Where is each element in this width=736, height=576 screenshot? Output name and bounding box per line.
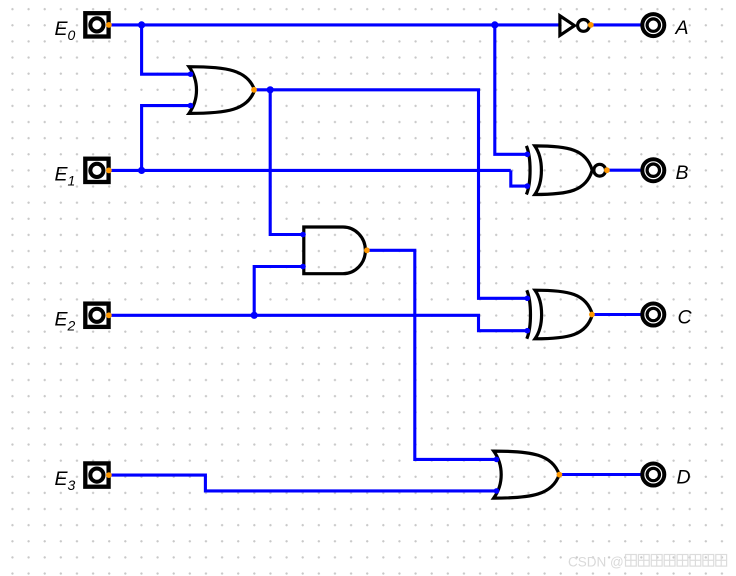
input pin E2 square: [85, 304, 108, 327]
output pin D inner ring: [647, 468, 659, 480]
wire E1 output horizontal: [109, 169, 511, 172]
wire from node E0-J1 down to OR gate U1 top input: [142, 25, 190, 74]
wire XNOR U4 output to output pin B: [607, 169, 641, 172]
xnor-gate U4 body: [535, 146, 592, 195]
wire from node OR-J4 down to AND U2 top input: [270, 90, 303, 235]
wire NOT U3 output to output pin A: [591, 23, 641, 26]
wire from node E1-J2 up to OR gate U1 bottom input: [142, 106, 190, 171]
output pin D outer ring: [642, 464, 664, 486]
input pin E0 inner ring: [90, 18, 103, 31]
wire endpoint dot XNOR U4 bottom input: [525, 183, 531, 189]
not-gate U3 bubble: [578, 20, 590, 32]
not-gate U3 triangle: [560, 16, 575, 36]
wire endpoint dot XNOR U4 top input: [525, 152, 531, 158]
and-gate U2: [304, 227, 366, 274]
wire endpoint dot OR U1 bottom input: [188, 103, 194, 109]
svg-text:E1: E1: [55, 163, 76, 188]
output pin C inner ring: [647, 308, 659, 320]
output pin B outer ring: [642, 159, 664, 181]
wire endpoint dot AND U2 top input: [300, 232, 306, 238]
output dot of pin E0: [106, 22, 112, 28]
xnor-gate U4 output bubble: [594, 164, 606, 176]
output dot of AND U2: [364, 247, 370, 253]
wire endpoint dot OR U6 bottom input: [494, 488, 500, 494]
xor-gate U5 body: [535, 290, 592, 339]
wire E0 output to NOT gate input (net E0 horizontal): [109, 23, 559, 26]
wire endpoint dot OR U1 top input: [188, 71, 194, 77]
watermark glyph blocks: [626, 555, 727, 567]
svg-text:E3: E3: [55, 468, 76, 493]
output dot of NOT U3: [588, 22, 594, 28]
or-gate U1: [189, 67, 255, 114]
output dot of pin E3: [106, 472, 112, 478]
output pin C outer ring: [642, 304, 664, 326]
input pin E3 square: [85, 463, 108, 486]
svg-text:CSDN @: CSDN @: [568, 555, 624, 570]
input pin E2 inner ring: [90, 309, 103, 322]
input pin E3 inner ring: [90, 469, 103, 482]
output pin A outer ring: [642, 14, 664, 36]
output dot of XNOR U4: [604, 167, 610, 173]
output dot of OR U6: [557, 472, 563, 478]
input pin E1 inner ring: [90, 164, 103, 177]
wire AND U2 output to OR U6 top input: [367, 250, 496, 459]
junction node J2 on E1 net: [138, 167, 145, 174]
svg-text:D: D: [677, 467, 691, 489]
svg-text:E0: E0: [55, 18, 76, 43]
xnor-gate U4 leading arc: [526, 146, 530, 195]
output dot of pin E1: [106, 168, 112, 174]
wire endpoint dot XOR U5 bottom input: [525, 328, 531, 334]
junction node J3 on E0 net: [491, 21, 498, 28]
or-gate U6: [494, 451, 560, 498]
output dot of OR U1: [251, 87, 257, 93]
svg-text:C: C: [678, 307, 693, 329]
wire endpoint dot OR U6 top input: [494, 457, 500, 463]
svg-text:B: B: [676, 162, 689, 184]
wire endpoint dot XOR U5 top input: [525, 296, 531, 302]
output pin A inner ring: [647, 19, 659, 31]
wire XOR U5 output to output pin C: [592, 313, 641, 316]
wire from node E2-J5 up to AND U2 bottom input: [254, 267, 303, 316]
wire OR U6 output to output pin D: [559, 473, 641, 476]
wire E3 output to OR U6 bottom input: [109, 475, 497, 491]
output dot of pin E2: [106, 312, 112, 318]
wire OR U1 output to XOR U5 top input: [254, 90, 527, 298]
junction node J1 on E0 net: [138, 21, 145, 28]
svg-text:A: A: [675, 17, 689, 39]
svg-text:E2: E2: [55, 308, 76, 333]
junction node J5 on E2 net: [251, 312, 258, 319]
wire E1 tail down to XNOR U4 bottom input: [511, 170, 527, 186]
input pin E1 square: [85, 159, 108, 182]
input pin E0 square: [85, 13, 108, 36]
wire from node E0-J3 down to XNOR U4 top input: [495, 25, 527, 154]
output pin B inner ring: [647, 164, 659, 176]
wire E2 output to XOR U5 bottom input: [109, 315, 528, 330]
wire endpoint dot AND U2 bottom input: [300, 264, 306, 270]
xor-gate U5 leading arc: [527, 290, 531, 339]
output dot of XOR U5: [589, 312, 595, 318]
junction node J4 on OR output net: [267, 86, 274, 93]
